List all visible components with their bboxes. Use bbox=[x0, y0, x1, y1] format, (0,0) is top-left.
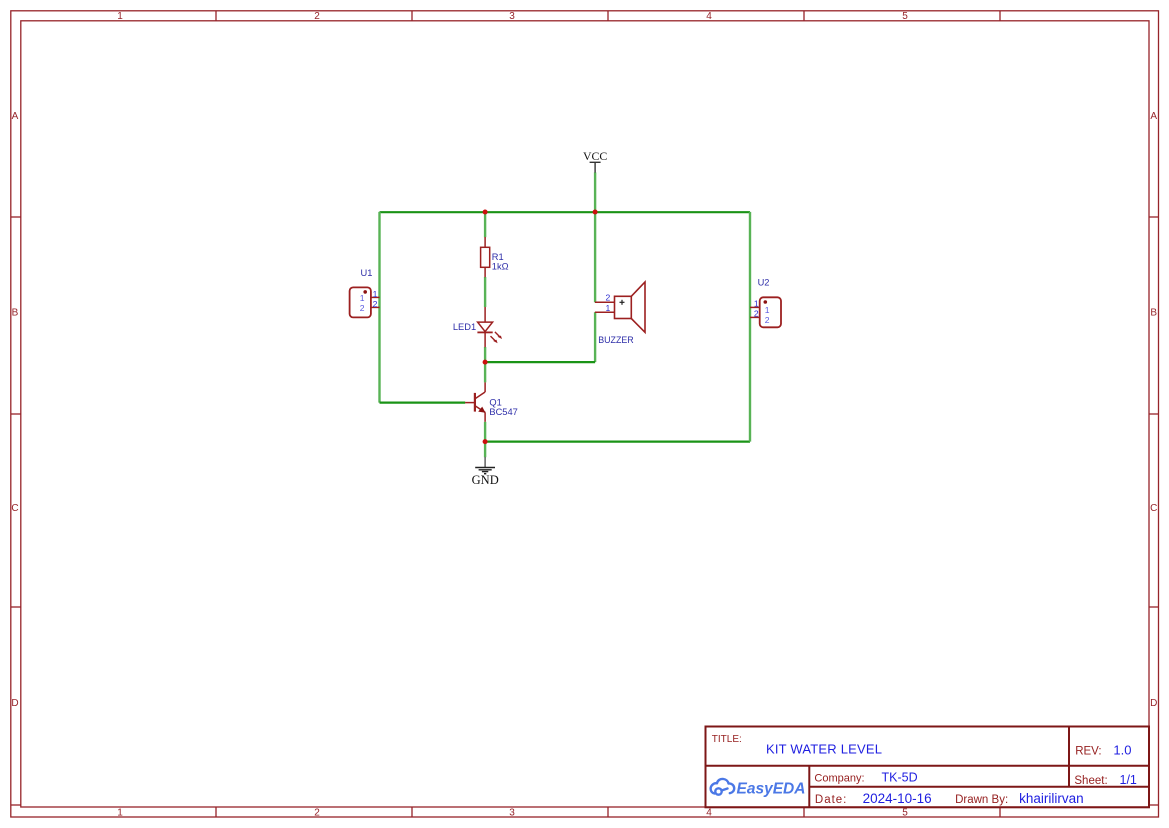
svg-text:2: 2 bbox=[606, 293, 611, 303]
svg-text:2: 2 bbox=[314, 11, 320, 22]
svg-text:1: 1 bbox=[606, 303, 611, 313]
svg-text:2: 2 bbox=[314, 808, 320, 819]
wire buzzer pin1 down bbox=[594, 312, 596, 362]
power VCC symbol bbox=[590, 162, 601, 172]
wire left vertical (U1 to base) bbox=[378, 212, 380, 403]
wire R1 to LED bbox=[484, 277, 486, 307]
svg-text:C: C bbox=[11, 503, 18, 514]
svg-text:A: A bbox=[12, 111, 19, 122]
wire R1 top bbox=[484, 212, 486, 237]
svg-text:REV:: REV: bbox=[1075, 746, 1101, 758]
svg-text:BUZZER: BUZZER bbox=[598, 335, 634, 345]
buzzer BUZZER bbox=[595, 282, 645, 332]
title block bbox=[706, 727, 1150, 808]
connector U1 bbox=[350, 287, 380, 317]
svg-text:3: 3 bbox=[509, 808, 515, 819]
svg-text:2: 2 bbox=[765, 315, 770, 325]
svg-text:KIT WATER LEVEL: KIT WATER LEVEL bbox=[766, 742, 882, 757]
svg-text:5: 5 bbox=[902, 11, 908, 22]
svg-text:BC547: BC547 bbox=[489, 407, 517, 417]
LED LED1 bbox=[477, 307, 500, 347]
buzzer plus sign bbox=[620, 300, 625, 305]
svg-text:U1: U1 bbox=[361, 268, 373, 278]
svg-text:1/1: 1/1 bbox=[1120, 773, 1137, 787]
svg-text:Drawn By:: Drawn By: bbox=[955, 794, 1008, 806]
svg-text:2: 2 bbox=[373, 299, 378, 309]
wire Q1 emitter down bbox=[484, 422, 486, 442]
svg-text:TITLE:: TITLE: bbox=[712, 734, 742, 745]
svg-text:1: 1 bbox=[765, 305, 770, 315]
svg-text:1: 1 bbox=[117, 808, 123, 819]
svg-text:EasyEDA: EasyEDA bbox=[737, 781, 806, 798]
junction emitter node bbox=[483, 439, 488, 444]
svg-text:1: 1 bbox=[117, 11, 123, 22]
svg-text:1kΩ: 1kΩ bbox=[492, 261, 509, 271]
wire LED to junction bbox=[484, 347, 486, 362]
svg-text:2024-10-16: 2024-10-16 bbox=[863, 791, 932, 806]
svg-text:5: 5 bbox=[902, 808, 908, 819]
svg-text:1: 1 bbox=[754, 298, 759, 308]
svg-text:VCC: VCC bbox=[583, 149, 607, 163]
wire junction to Q1 collector bbox=[484, 362, 486, 382]
junction at R1 top bbox=[483, 210, 488, 215]
svg-text:2: 2 bbox=[360, 303, 365, 313]
svg-text:A: A bbox=[1150, 111, 1157, 122]
wire VCC to buzzer pin2 bbox=[594, 212, 596, 302]
svg-text:TK-5D: TK-5D bbox=[882, 771, 918, 785]
svg-text:LED1: LED1 bbox=[453, 322, 476, 332]
wire right vertical U2 bbox=[749, 212, 751, 442]
svg-text:1: 1 bbox=[373, 289, 378, 299]
svg-text:B: B bbox=[1150, 307, 1157, 318]
transistor Q1 bbox=[465, 382, 485, 421]
svg-text:D: D bbox=[11, 698, 18, 709]
junction LED cathode node bbox=[483, 360, 488, 365]
svg-text:Company:: Company: bbox=[814, 772, 864, 784]
svg-text:4: 4 bbox=[706, 808, 712, 819]
wire emitter rail bottom bbox=[485, 441, 750, 443]
svg-text:B: B bbox=[12, 307, 19, 318]
connector U2 bbox=[750, 297, 781, 327]
wire GND stub bbox=[484, 442, 486, 458]
svg-text:Sheet:: Sheet: bbox=[1074, 775, 1107, 787]
svg-text:C: C bbox=[1150, 503, 1157, 514]
svg-text:4: 4 bbox=[706, 11, 712, 22]
wire LED cathode to buzzer bbox=[485, 361, 595, 363]
EasyEDA logo cloud bbox=[711, 779, 735, 795]
svg-text:Date:: Date: bbox=[815, 794, 848, 806]
wire base horizontal bbox=[380, 402, 466, 404]
svg-text:3: 3 bbox=[509, 11, 515, 22]
resistor R1 bbox=[481, 237, 490, 277]
svg-text:2: 2 bbox=[754, 309, 759, 319]
svg-text:U2: U2 bbox=[758, 278, 770, 288]
svg-text:1: 1 bbox=[360, 293, 365, 303]
wire VCC rail top bbox=[380, 211, 751, 213]
ground GND symbol bbox=[475, 457, 495, 474]
svg-text:GND: GND bbox=[472, 473, 499, 487]
svg-text:D: D bbox=[1150, 698, 1157, 709]
svg-text:1.0: 1.0 bbox=[1113, 743, 1131, 758]
wire VCC stem bbox=[594, 172, 596, 212]
svg-text:khairilirvan: khairilirvan bbox=[1019, 791, 1084, 806]
junction at VCC bbox=[593, 210, 598, 215]
